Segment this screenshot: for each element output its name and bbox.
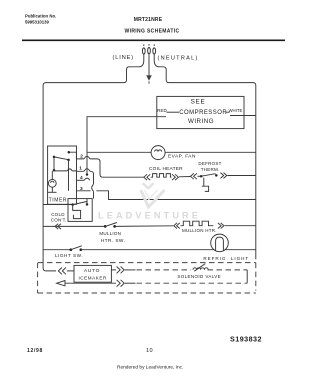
defrost thermostat S1 [198, 174, 218, 192]
hop arc over terminal 3 wire [92, 184, 94, 191]
wire terminal 2 to coil heater column [76, 159, 102, 177]
mullion heater switch S3 [104, 223, 117, 228]
cold control box S2 [68, 199, 92, 222]
wire coil heater to defrost therm [179, 176, 190, 178]
wire to coil heater connector [103, 176, 144, 178]
mullion heater R2 element [181, 221, 214, 226]
timer T1 box [48, 146, 77, 204]
wire NEUTRAL: right prong to right trunk down right side [154, 54, 256, 259]
timer motor M2 [48, 179, 56, 187]
timer contact dot [68, 151, 71, 154]
svg-text:SOLENOID VALVE: SOLENOID VALVE [177, 274, 221, 279]
wire icemaker return row [65, 282, 116, 284]
terminal 4 contact arc [84, 178, 90, 180]
wire lamp to neutral trunk [225, 249, 256, 251]
wire solenoid return corner [246, 270, 248, 283]
svg-text:Rendered by LeadVenture, Inc.: Rendered by LeadVenture, Inc. [117, 364, 183, 370]
svg-text:EVAP. FAN: EVAP. FAN [168, 153, 196, 159]
timer node dot [53, 169, 56, 172]
svg-text:10: 10 [146, 348, 153, 354]
wire mullion heater to neutral trunk [225, 225, 256, 227]
header rule [22, 39, 285, 41]
timer motor top lead [51, 171, 53, 180]
svg-text:1: 1 [79, 165, 82, 171]
svg-text:HTR. SW.: HTR. SW. [101, 238, 126, 244]
terminal 1 hop arc [84, 169, 90, 172]
connector >> icemaker out [117, 267, 125, 274]
svg-text:ICEMAKER: ICEMAKER [78, 275, 107, 280]
connector >> right of mullion heater [218, 223, 224, 229]
cold control right lead up [86, 199, 88, 205]
dashed wire return row to solenoid corner [125, 282, 136, 284]
wire defrost row to neutral trunk [227, 175, 255, 177]
svg-text:LEADVENTURE: LEADVENTURE [98, 211, 201, 221]
wire white stub inside box [226, 111, 230, 113]
header publication number [25, 14, 56, 25]
wire light switch to lamp [81, 249, 215, 251]
timer under-motor wire [48, 191, 57, 193]
svg-text:RED: RED [157, 108, 167, 113]
svg-text:AUTO: AUTO [84, 268, 100, 274]
wire red stub inside box [167, 111, 180, 113]
evap fan motor M1 [151, 146, 165, 160]
cold control sensor loop [73, 206, 81, 219]
refrigerator light LP1 [211, 234, 229, 252]
svg-text:MULLION: MULLION [99, 231, 121, 236]
svg-text:Publication No.: Publication No. [25, 14, 56, 19]
connector << icemaker feed [58, 268, 66, 275]
wire LINE: left prong down to left trunk, down to icemaker row corner [43, 54, 144, 271]
watermark V logo [141, 183, 165, 207]
svg-text:CON'T.: CON'T. [51, 217, 67, 222]
svg-text:(NEUTRAL): (NEUTRAL) [158, 56, 199, 62]
ground arrow [146, 75, 152, 81]
wire light row from line trunk [43, 249, 71, 251]
wire evap fan row right to neutral trunk [165, 151, 256, 153]
timer motor bottom lead [51, 187, 53, 192]
svg-text:S193832: S193832 [230, 334, 262, 343]
optional accessory dashed box [38, 263, 256, 293]
connector << left of mullion heater [174, 223, 180, 229]
connector >> icemaker return [117, 280, 125, 287]
svg-text:TIMER: TIMER [49, 197, 68, 203]
coil heater R1 element [151, 174, 172, 178]
wire terminal 4 stub [76, 179, 84, 181]
wire mullion row from line trunk [43, 225, 104, 227]
dashed wire icemaker row to solenoid [125, 269, 136, 271]
wire terminal 1 down to cold control [76, 171, 93, 198]
wire RED row from node to compressor box [87, 116, 167, 118]
svg-text:MRT21NRE: MRT21NRE [134, 17, 163, 23]
timer switch arm [54, 157, 68, 160]
connector << on mullion row [55, 224, 61, 229]
wire WHITE row to neutral trunk [230, 115, 256, 117]
svg-text:12/98: 12/98 [27, 348, 43, 354]
solenoid valve L1 coil [193, 264, 208, 272]
svg-text:MULLION HTR.: MULLION HTR. [182, 228, 217, 233]
timer internal wire to terminal 2 [69, 152, 77, 159]
timer switch pivot dot [53, 156, 56, 159]
svg-text:REFRIG. LIGHT: REFRIG. LIGHT [203, 256, 249, 261]
wire icemaker box to connector [111, 269, 116, 271]
svg-text:THERM.: THERM. [201, 167, 220, 172]
svg-text:SEE: SEE [191, 99, 206, 106]
wire mullion switch to heater [116, 225, 173, 228]
cold control switch arm [73, 202, 87, 205]
svg-text:WIRING SCHEMATIC: WIRING SCHEMATIC [125, 28, 180, 34]
wire terminal 3 row with jog to defrost return row [76, 191, 255, 200]
wire evap fan row [87, 151, 151, 153]
timer internal wire 1 with hop [54, 169, 76, 171]
svg-text:(LINE): (LINE) [113, 55, 135, 61]
connector << left of defrost therm [191, 173, 197, 179]
light switch S4 [69, 246, 82, 251]
connector >> right of defrost therm [220, 173, 226, 179]
wire node column x87 (compressor/fan feed) [86, 117, 88, 175]
timer contact dot lower [67, 159, 70, 162]
svg-text:COLD: COLD [51, 212, 65, 217]
svg-text:5995310139: 5995310139 [25, 20, 50, 25]
wire connector to icemaker box [67, 270, 74, 272]
svg-text:LIGHT SW.: LIGHT SW. [55, 253, 83, 258]
dashed wire solenoid to right corner [208, 269, 248, 271]
timer internal wire contact to terminal 3 [68, 160, 70, 191]
svg-text:COIL HEATER: COIL HEATER [149, 166, 183, 172]
timer internal wire pivot column [53, 157, 55, 170]
connector left arrow icemaker return [57, 281, 65, 286]
svg-text:WHITE: WHITE [229, 108, 243, 113]
cold control contact dots [71, 203, 74, 206]
connector >> right of coil heater [172, 174, 178, 180]
svg-text:COMPRESSOR: COMPRESSOR [179, 110, 227, 116]
connector << left of coil heater [144, 174, 150, 180]
auto icemaker box A1 [74, 265, 111, 282]
svg-text:DEFROST: DEFROST [198, 161, 221, 166]
plug P1 prongs [142, 44, 155, 54]
compressor box U1 (SEE COMPRESSOR WIRING) [157, 96, 244, 128]
wire line trunk to cold control [43, 204, 73, 206]
svg-text:WIRING: WIRING [188, 118, 214, 125]
contact at terminal 4 top [86, 173, 88, 175]
terminal 2 hop arc [84, 156, 90, 159]
ground: center prong drop wire [148, 54, 150, 75]
